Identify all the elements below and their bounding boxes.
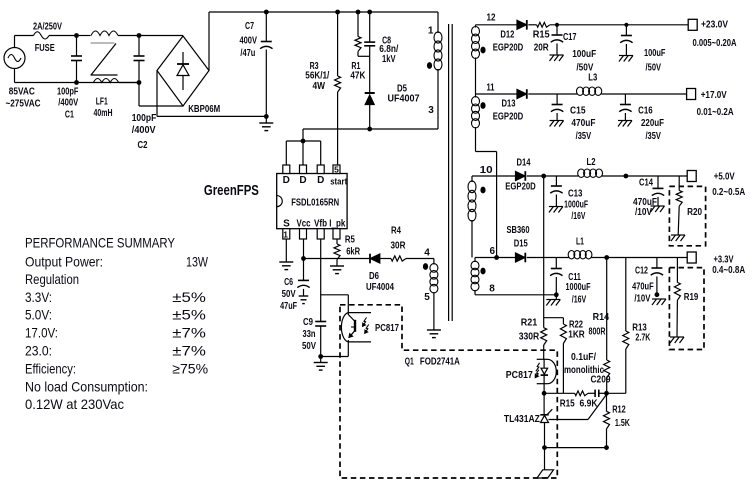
svg-text:0.1uF/: 0.1uF/ [571,352,596,363]
capacitor C15 470uF/35V [556,94,558,105]
svg-text:C209: C209 [591,375,611,386]
svg-text:100uF: 100uF [572,49,596,60]
optocoupler PC817 phototransistor [348,312,371,314]
svg-text:C9: C9 [303,317,313,328]
node R3 top [335,10,340,15]
svg-text:2A/250V: 2A/250V [33,22,62,33]
svg-text:20R: 20R [534,43,550,54]
T1 secondary winding pin 12 [475,25,477,28]
terminal +17.0V [687,89,696,100]
svg-text:2.7K: 2.7K [635,333,651,344]
svg-text:5: 5 [424,292,430,303]
T1 winding 6 phase dot [480,268,485,275]
node cap 23V-2 top [624,23,628,27]
svg-text:UF4007: UF4007 [388,94,420,105]
ground R20 [671,234,685,236]
svg-text:100uF: 100uF [644,48,666,59]
ground S pin [279,261,293,263]
diode D13 EGP20D [517,90,527,99]
svg-text:C14: C14 [639,178,653,189]
svg-text:23.0:: 23.0: [25,343,52,359]
svg-text:D: D [283,175,290,186]
svg-text:47uF: 47uF [280,301,297,312]
dashed box R20 [669,186,705,245]
svg-text:50V: 50V [282,289,296,300]
ground cap 23V-2 [619,55,633,57]
wire bottom feedback [545,447,607,449]
svg-text:C6: C6 [284,277,293,288]
wire Vcc pin [303,239,305,259]
ground C6 [299,295,309,297]
node Vcc [301,256,306,261]
inductor LF1 40mH common-mode choke [91,31,118,36]
wire L2 to terminal 5V [602,175,687,177]
capacitor C16 220uF/35V [624,94,626,105]
svg-text:220uF: 220uF [641,118,664,129]
bridge rectifier KBP06M [157,36,209,106]
svg-text:FUSE: FUSE [35,43,55,54]
transformer T1 core [448,24,450,321]
U1 pins [283,165,290,174]
wire LF1 to C2 top [118,35,139,37]
T1 winding 10 phase dot [480,187,485,194]
svg-text:4W: 4W [312,81,325,92]
svg-text:D: D [317,175,324,186]
wire L3 to terminal 17V [601,93,686,95]
wire fuse to C1 [49,35,77,37]
svg-text:13W: 13W [186,253,209,269]
svg-text:800R: 800R [589,327,607,338]
wire opto emitter to node [347,340,349,357]
dashed box Q1 FOD2741A [340,305,557,478]
T1 primary winding pins 1-3 [437,12,439,33]
wire R15 to terminal 23V [550,24,688,26]
wire anode to chassis ground [544,448,546,470]
resistor R5 6kR [336,239,338,244]
svg-text:FSDL0165RN: FSDL0165RN [291,198,339,209]
wire L1 to terminal 3.3V [591,257,687,259]
wire D13 to L3 [528,93,577,95]
diode D5 UF4007 [369,56,371,93]
node C2 bottom [137,80,142,85]
svg-text:1: 1 [283,230,288,240]
svg-text:SB360: SB360 [507,225,530,236]
resistor R13 2.7K [625,258,627,332]
wire R4 to aux winding [406,258,434,260]
capacitor C11 1000uF/16V [555,258,557,269]
capacitor C14 470uF/10V [657,176,659,188]
fuse F1 2A/250V [34,32,50,39]
inductor L2 [578,169,585,177]
wire ref node to R13 [607,392,626,394]
terminal +23.0V [688,19,697,30]
resistor R12 1.5K [606,393,608,411]
diode D15 SB360 [516,253,526,262]
resistor R4 30R [391,256,406,261]
node D5 anode [367,127,372,132]
svg-text:0.01~0.2A: 0.01~0.2A [697,107,734,118]
svg-text:C13: C13 [568,189,583,200]
svg-text:1kV: 1kV [382,54,396,65]
svg-text:S: S [283,218,290,229]
node R1 top [356,10,361,15]
ground C13 [549,206,563,208]
svg-text:100pF: 100pF [132,113,157,124]
capacitor C2 100pF/400V [138,36,140,57]
ground aux winding [427,329,441,331]
ground R19 [670,336,684,338]
resistor R20 [678,176,680,190]
node C7 top [264,10,269,15]
svg-text:100pF: 100pF [57,87,79,98]
wire Vcc to D6 [304,258,371,260]
node C1 bottom [74,80,79,85]
svg-text:D12: D12 [500,29,514,40]
svg-text:17.0V:: 17.0V: [25,325,58,341]
svg-text:R5: R5 [345,234,355,245]
T1 secondary winding pin 11 [475,58,477,98]
svg-text:33n: 33n [303,329,316,340]
svg-text:/400V: /400V [132,125,156,136]
capacitor 100uF/50V second [625,25,627,36]
wire bottom rail AC [14,69,16,83]
wire R21 column [543,176,545,318]
wire TL431 ref to divider [549,419,589,421]
svg-text:1KR: 1KR [568,330,585,341]
svg-text:Efficiency:: Efficiency: [25,360,76,376]
ground C14 [651,205,665,207]
ground C9 [320,357,322,363]
svg-text:LF1: LF1 [96,97,108,108]
svg-text:0.2~0.5A: 0.2~0.5A [712,187,745,198]
svg-text:+5.0V: +5.0V [714,171,735,182]
T1 winding 11 phase dot [480,102,485,109]
T1 aux phase dot [423,263,428,270]
svg-text:R4: R4 [391,226,401,237]
svg-text:Output Power:: Output Power: [25,253,103,269]
capacitor C7 400V/47u [265,12,267,42]
svg-text:Regulation: Regulation [25,271,79,287]
svg-text:Q1: Q1 [405,356,414,367]
ground C12 [652,298,666,300]
capacitor C13 1000uF/16V [555,176,557,186]
resistor R21 330R [541,328,547,345]
svg-text:56K/1/: 56K/1/ [305,71,329,82]
inductor L3 [577,87,584,95]
svg-text:I_pk: I_pk [329,218,345,229]
svg-text:GreenFPS: GreenFPS [204,182,259,199]
node D tie [301,139,306,144]
wire winding 6 to D15 [475,257,516,259]
node C1 top [74,33,79,38]
wire S pin to ground [285,239,287,262]
svg-text:R15: R15 [533,29,550,40]
svg-text:No load Consumption:: No load Consumption: [25,378,148,394]
ground primary [265,116,267,122]
svg-text:C16: C16 [638,105,653,116]
wire C1 to LF1 top [77,35,91,37]
svg-text:EGP20D: EGP20D [493,112,524,123]
wire winding 11 to D13 [476,93,518,95]
svg-text:/10V: /10V [634,294,650,305]
resistor R15 20R [537,22,550,27]
wire Vfb to opto collector [321,294,349,296]
svg-text:50V: 50V [302,341,316,352]
svg-text:Vcc: Vcc [297,218,311,229]
svg-text:C1: C1 [65,110,74,121]
op-amp U1 FSDL0165RN body [277,174,347,229]
terminal +3.3V [687,252,696,263]
svg-text:PC817: PC817 [375,323,399,334]
svg-text:/10V: /10V [635,207,652,218]
wire D pins tie [286,140,320,142]
capacitor C12 470uF/10V [656,258,658,269]
svg-text:start: start [330,177,347,187]
svg-text:/35V: /35V [576,131,592,142]
svg-text:R14: R14 [593,312,610,323]
wire bridge negative to ground rail [156,71,158,117]
svg-text:L2: L2 [587,157,596,168]
wire D14 to L2 [527,175,578,177]
svg-text:470uF: 470uF [571,118,595,129]
svg-text:6kR: 6kR [346,246,361,257]
ground C16 [618,120,632,122]
ground C11 [555,295,557,299]
svg-text:Vfb: Vfb [314,218,327,229]
wire bridge positive to top rail [208,12,210,71]
svg-text:1000uF: 1000uF [564,199,588,210]
diode D6 UF4004 [369,254,371,264]
svg-text:40mH: 40mH [94,108,113,119]
node R12 bottom [604,445,609,450]
resistor R14 800R [606,258,608,361]
svg-text:±5%: ±5% [172,289,206,305]
wire top rail [266,11,438,13]
svg-text:EGP20D: EGP20D [505,181,536,192]
node C12 bottom [655,292,660,297]
opto light arrows receive [363,318,367,327]
svg-text:4: 4 [424,248,430,259]
node R14 top [604,255,609,260]
svg-text:~275VAC: ~275VAC [6,98,41,109]
T1 secondary winding pins 6-8 [474,258,476,263]
svg-text:+17.0V: +17.0V [701,90,727,101]
wire winding 12 to D12 [476,24,518,26]
svg-text:±7%: ±7% [172,325,206,341]
svg-text:D: D [299,175,306,186]
svg-text:R21: R21 [521,317,538,328]
svg-text:L1: L1 [576,236,584,247]
svg-text:5: 5 [334,165,339,175]
resistor R15 6.9K [575,391,588,396]
node C8 top [367,10,372,15]
svg-text:1: 1 [428,25,434,36]
capacitor C209 0.1uF monolithic [588,392,595,394]
svg-text:30R: 30R [391,241,407,252]
svg-text:≥75%: ≥75% [172,360,208,376]
svg-text:8: 8 [489,283,495,294]
svg-text:D6: D6 [369,271,379,282]
svg-text:FOD2741A: FOD2741A [420,356,460,367]
svg-text:470uF: 470uF [632,281,654,292]
svg-text:/16V: /16V [571,211,585,222]
inductor L1 [568,251,575,259]
wire Vfb pin down [320,239,322,322]
svg-text:0.12W at 230Vac: 0.12W at 230Vac [25,396,124,412]
capacitor C17 100uF/50V [556,25,558,35]
svg-text:±7%: ±7% [172,343,206,359]
capacitor C6 50V/47uF [303,259,305,281]
wire D12 to R15 [528,24,536,26]
svg-text:D14: D14 [517,158,531,169]
dashed box R19 [669,268,704,350]
svg-text:PERFORMANCE SUMMARY: PERFORMANCE SUMMARY [25,234,176,250]
svg-text:±5%: ±5% [172,307,206,323]
svg-text:R19: R19 [684,292,699,303]
wire R21-R22 split [544,317,564,319]
node C17 top [555,23,559,27]
wire cathode node to R15 [544,392,575,394]
svg-text:/50V: /50V [646,62,662,73]
svg-text:1000uF: 1000uF [566,282,591,293]
svg-text:12: 12 [487,12,496,23]
node R21 column top [541,174,546,179]
capacitor C1 100pF/400V [76,36,78,57]
wire D6 to R4 [380,258,391,260]
wire LF1 bottom to C2 [119,82,139,84]
svg-text:C2: C2 [138,140,148,151]
node C9 bottom [318,354,323,359]
wire C2 to bridge bottom [138,83,140,107]
svg-text:+3.3V: +3.3V [714,255,734,266]
T1 winding 12 phase dot [480,47,485,54]
node winding 11 return [494,255,499,260]
wire winding 10 to D14 [472,175,516,177]
svg-text:0.4~0.8A: 0.4~0.8A [712,265,745,276]
node C11 bottom [554,292,559,297]
capacitor C8 6.8n/1kV [369,12,371,42]
AC source V1 85-275VAC [4,48,25,69]
diode D12 EGP20D [517,20,527,29]
T1 aux winding pins 4-5 [433,263,435,266]
resistor R22 1KR [560,324,566,344]
node C2 top [137,33,142,38]
node C7 bottom [264,114,269,119]
wire D15 to L1 [527,257,569,259]
svg-text:PC817: PC817 [506,370,533,381]
svg-text:400V: 400V [239,36,257,47]
wire winding 11 return [475,127,477,152]
wire AC source to fuse [14,36,16,48]
svg-text:/47u: /47u [240,48,255,59]
optocoupler PC817 LED [537,358,548,360]
svg-text:5.0V:: 5.0V: [25,307,52,323]
diode D14 EGP20D [516,172,526,181]
svg-text:R12: R12 [612,404,626,415]
svg-text:TL431AZ: TL431AZ [504,414,540,425]
wire R1-C8 join [358,55,370,57]
wire winding 8 return [475,294,556,296]
svg-text:C7: C7 [245,21,254,32]
svg-text:C12: C12 [635,266,648,277]
svg-text:6.9K: 6.9K [580,398,599,409]
svg-text:47K: 47K [350,71,366,82]
resistor R1 47K [357,12,359,37]
svg-text:KBP06M: KBP06M [188,104,220,115]
terminal +5.0V [687,171,696,182]
node LED cathode [542,391,547,396]
svg-text:3: 3 [428,105,434,116]
svg-text:C15: C15 [570,105,586,116]
svg-text:85VAC: 85VAC [9,87,35,98]
T1 primary phase dot [427,62,432,69]
svg-text:R15: R15 [560,398,575,409]
ground C17 [550,54,564,56]
svg-text:1.5K: 1.5K [615,418,631,429]
svg-text:/400V: /400V [58,98,78,109]
ground R5 [330,265,344,267]
svg-text:/35V: /35V [645,131,661,142]
svg-text:D13: D13 [502,99,516,110]
node TL431 anode [542,445,547,450]
svg-text:+23.0V: +23.0V [701,20,728,31]
T1 secondary winding pin 10 [471,176,473,182]
wire drain rail [303,128,438,130]
svg-text:330R: 330R [519,332,540,343]
svg-text:3.3V:: 3.3V: [25,289,52,305]
svg-text:11: 11 [487,82,495,93]
svg-text:EGP20D: EGP20D [493,43,524,54]
svg-text:UF4004: UF4004 [366,282,394,293]
svg-text:6: 6 [490,246,496,257]
shunt regulator U2 TL431AZ [543,393,545,415]
opto light arrows emit [536,363,540,372]
resistor R3 56K/1/4W [337,12,339,76]
ground chassis TL431 [537,470,554,478]
svg-text:L3: L3 [588,72,597,83]
node L2 out [624,174,629,179]
ground C15 [550,120,564,122]
svg-text:R20: R20 [687,207,702,218]
svg-text:/16V: /16V [572,294,587,305]
svg-text:0.005~0.20A: 0.005~0.20A [693,38,737,49]
node ref [604,391,609,396]
svg-text:10: 10 [480,165,494,176]
capacitor C9 33n/50V [315,321,326,323]
resistor R19 [676,258,678,283]
svg-text:C17: C17 [563,32,577,43]
svg-text:D15: D15 [514,239,528,250]
